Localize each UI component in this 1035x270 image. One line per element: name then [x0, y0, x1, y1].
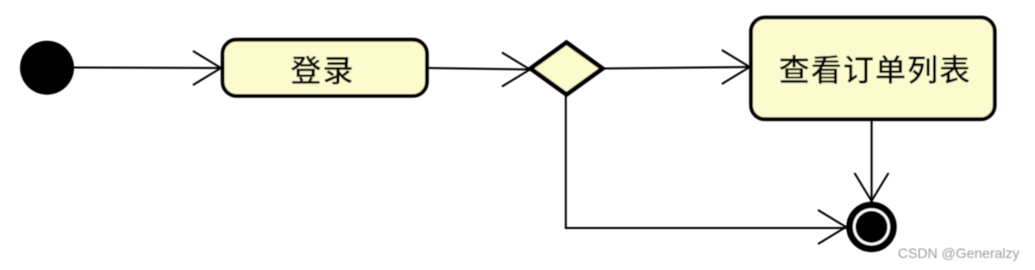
wire: initial to 登录 [74, 67, 221, 70]
label 查看订单列表 [780, 55, 970, 84]
activity 查看订单列表 [751, 18, 995, 120]
wire: 登录 to decision [429, 68, 531, 70]
arrowhead into 登录 [193, 51, 233, 85]
label 登录 [291, 56, 352, 85]
final node outer ring [850, 205, 894, 249]
decision diamond [531, 43, 603, 95]
arrowhead into 查看订单列表 [722, 50, 762, 84]
arrowhead down into final [855, 173, 889, 213]
final node inner disc [856, 211, 888, 243]
svg-text:CSDN @Generalzy: CSDN @Generalzy [898, 245, 1020, 261]
arrowhead right into final [818, 210, 858, 244]
wire: decision elbow to final [566, 94, 847, 228]
arrowhead into decision [502, 53, 542, 87]
wire: 查看订单列表 down to final [871, 119, 873, 201]
initial node [20, 41, 74, 95]
activity 登录 [223, 40, 427, 96]
wire: decision to 查看订单列表 [603, 67, 751, 69]
